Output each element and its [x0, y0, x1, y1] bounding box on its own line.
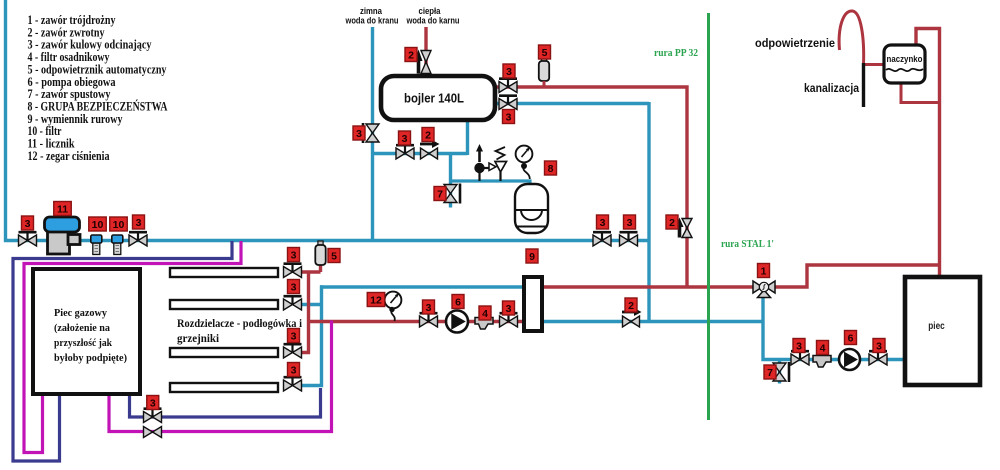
filter 4 (piec line)	[813, 356, 831, 368]
svg-text:rura STAL 1': rura STAL 1'	[721, 239, 774, 250]
wymiennik rurowy U9 (heat exchanger)	[524, 277, 542, 331]
node label: ciepla woda do karnu	[406, 6, 460, 26]
label 4	[479, 306, 491, 320]
label 11	[54, 202, 72, 216]
label 7	[764, 365, 776, 379]
label 2	[405, 48, 417, 62]
label 3	[873, 339, 885, 353]
water meter 11 (licznik)	[45, 217, 81, 254]
node label: Rozdzielacze	[177, 318, 303, 345]
label 3	[624, 215, 636, 229]
svg-text:odpowietrzenie: odpowietrzenie	[755, 38, 835, 50]
svg-text:bojler 140L: bojler 140L	[404, 91, 464, 106]
valve 3 bojler warm line	[499, 96, 517, 110]
svg-text:przyszłość jak: przyszłość jak	[54, 337, 113, 349]
pump 6 (pompa obiegowa)	[446, 311, 468, 333]
svg-text:kanalizacja: kanalizacja	[804, 83, 860, 95]
wire: heating blue supply to exchanger	[320, 285, 525, 288]
valve 3 on zimna riser	[363, 123, 379, 143]
svg-text:4: 4	[820, 342, 826, 354]
label 3	[288, 363, 300, 377]
bojler 140L tank	[381, 76, 495, 120]
wire: manifold red riser with bar1/bar3 stubs	[300, 265, 321, 354]
wire: drain stub bottom right	[778, 360, 781, 384]
svg-text:6: 6	[848, 332, 854, 344]
svg-text:3: 3	[506, 303, 512, 315]
svg-text:3: 3	[25, 218, 31, 230]
svg-text:3: 3	[600, 217, 606, 229]
naczynko vessel box	[884, 45, 925, 83]
svg-text:11: 11	[57, 203, 68, 215]
svg-text:3: 3	[356, 128, 362, 140]
manifold bar 1	[170, 268, 278, 277]
wire: rura PP 32 (green)	[707, 13, 710, 420]
svg-text:7: 7	[437, 188, 443, 200]
svg-text:12: 12	[370, 294, 382, 306]
wire: exchanger secondary return	[541, 320, 765, 323]
label 3	[399, 131, 411, 145]
label 3	[288, 329, 300, 343]
label 2	[422, 128, 434, 142]
manifold bar 2	[170, 300, 278, 309]
svg-text:grzejniki: grzejniki	[177, 333, 220, 345]
safety relief valve of GRUPA 8	[489, 147, 507, 181]
pressure gauge 12 (zegar cisnienia)	[385, 292, 402, 321]
svg-text:10: 10	[92, 219, 104, 231]
manifold bar 3	[170, 348, 278, 357]
svg-text:woda do kranu: woda do kranu	[345, 16, 399, 26]
svg-text:ciepła: ciepła	[419, 6, 442, 16]
svg-text:3: 3	[291, 330, 297, 342]
wire: naczynko left port	[863, 63, 884, 66]
label 2	[625, 298, 637, 312]
valve 3 (meter left)	[19, 232, 37, 246]
label 5	[328, 249, 340, 263]
wire: zimna woda riser	[371, 27, 374, 242]
svg-text:3: 3	[291, 249, 297, 261]
label 2	[666, 215, 678, 229]
wire: bojler warm-side blue line to right riser	[493, 102, 649, 323]
label 4	[817, 341, 829, 355]
vent 5 stem	[543, 81, 546, 87]
svg-text:Piec gazowy: Piec gazowy	[54, 307, 107, 319]
manifold bar 4	[170, 383, 278, 392]
wire: safety group header	[449, 181, 530, 187]
valve 3 before piec filter	[791, 351, 809, 365]
valve 3 (meter right)	[129, 232, 147, 246]
svg-text:zimna: zimna	[360, 6, 383, 16]
valve 3 bojler hot outlet	[499, 79, 517, 93]
label 3	[288, 280, 300, 294]
svg-text:12 - zegar ciśnienia: 12 - zegar ciśnienia	[28, 149, 111, 163]
svg-text:Rozdzielacze - podłogówka i: Rozdzielacze - podłogówka i	[177, 318, 303, 330]
label 3	[503, 301, 515, 315]
label 10	[89, 217, 107, 231]
svg-text:(założenie na: (założenie na	[54, 322, 110, 334]
wire: exchanger primary to valve1 and naczynko riser	[541, 29, 940, 288]
pressure gauge of GRUPA 8	[516, 146, 533, 179]
label 3	[423, 300, 435, 314]
svg-text:4: 4	[482, 308, 488, 320]
wire: safety group drop	[449, 152, 452, 208]
svg-text:3: 3	[876, 340, 882, 352]
label 3	[597, 215, 609, 229]
wire: valve1 down to piec pump line	[763, 290, 906, 360]
svg-text:piec: piec	[928, 321, 945, 332]
automatic vent 5 (top)	[539, 57, 549, 81]
label 3	[133, 215, 145, 229]
label 8	[545, 161, 557, 175]
wire: cold water main (left edge down and across)	[6, 0, 650, 241]
check valve 2 on return	[622, 308, 642, 327]
svg-text:8: 8	[548, 163, 554, 175]
filter 10 (right bolt)	[112, 235, 123, 255]
valve 3 manifold bar2	[284, 296, 302, 310]
wire: navy return from piec gazowy	[130, 388, 321, 417]
automatic vent 5 (manifold)	[315, 241, 325, 265]
label 3	[503, 110, 515, 124]
valve 3 before pump 6	[420, 313, 438, 327]
wire: kanalizacja line	[862, 63, 865, 107]
svg-text:2: 2	[408, 49, 414, 61]
label 3	[22, 216, 34, 230]
drain valve 7 (piec line)	[773, 362, 789, 382]
svg-text:5: 5	[331, 250, 337, 262]
piec box	[905, 277, 980, 385]
label 3	[147, 396, 159, 410]
three-way valve 1 (zawor trojdrozny)	[753, 281, 775, 298]
check valve 2 on red riser	[676, 218, 693, 238]
svg-text:3: 3	[506, 66, 512, 78]
valve 3 on cold main (left)	[593, 232, 611, 246]
filter 4 (filtr osadnikowy)	[475, 318, 493, 330]
wire: floor-heating magenta loop	[24, 241, 241, 453]
label 9	[526, 249, 538, 263]
valve 3 manifold bar1	[284, 264, 302, 278]
svg-text:1: 1	[761, 265, 767, 277]
valve 3 at piec	[869, 351, 887, 365]
valve 3 navy return	[144, 409, 162, 423]
svg-text:5: 5	[542, 47, 548, 59]
valve 3 manifold bar4	[284, 377, 302, 391]
label 1	[758, 264, 770, 278]
svg-text:2: 2	[669, 217, 675, 229]
node label: zimna woda do kranu	[345, 6, 399, 26]
svg-text:2: 2	[425, 129, 431, 141]
check valve 2 on ciepla riser	[415, 50, 432, 74]
valve 3 after filter	[500, 313, 518, 327]
svg-text:3: 3	[136, 217, 142, 229]
check valve 2 on cold feed	[420, 140, 440, 159]
svg-text:3: 3	[426, 302, 432, 314]
check valve of GRUPA 8	[474, 144, 488, 181]
label 3	[503, 64, 515, 78]
label 6	[845, 331, 857, 345]
wire: odpowietrzenie vent arc	[839, 11, 864, 65]
svg-text:6: 6	[455, 296, 461, 308]
valve 3 manifold bar3	[284, 344, 302, 358]
label 7	[434, 187, 446, 201]
label 3	[353, 126, 365, 140]
pump 6 (piec line)	[839, 349, 860, 370]
filter 10 (left bolt)	[91, 235, 102, 255]
svg-text:3: 3	[402, 133, 408, 145]
piec gazowy box	[33, 269, 140, 394]
wire: manifold blue riser	[300, 285, 322, 385]
legend text	[28, 13, 168, 163]
label 5	[539, 45, 551, 59]
svg-text:rura PP 32: rura PP 32	[654, 48, 698, 59]
svg-text:naczynko: naczynko	[887, 54, 923, 64]
wire: cold feed to bojler	[373, 118, 468, 155]
svg-text:3: 3	[291, 281, 297, 293]
wire: red main to exchanger (left)	[309, 320, 526, 323]
valve 3 on cold feed	[396, 145, 414, 159]
valve 3 on cold main (right)	[620, 232, 638, 246]
svg-text:3: 3	[506, 111, 512, 123]
svg-text:3: 3	[150, 397, 156, 409]
svg-text:3: 3	[291, 364, 297, 376]
label 12	[367, 293, 385, 307]
valve 3 magenta return	[144, 427, 162, 438]
wire: bojler hot outlet to right riser	[493, 87, 687, 288]
svg-text:byłoby podpięte): byłoby podpięte)	[54, 352, 127, 364]
label 6	[452, 295, 464, 309]
wire: navy loop (outer)	[13, 241, 232, 461]
svg-text:3: 3	[627, 217, 633, 229]
svg-text:3: 3	[796, 340, 802, 352]
wire: naczynko bottom loop	[901, 82, 940, 103]
expansion vessel (GRUPA 8)	[515, 184, 548, 233]
svg-text:10: 10	[113, 219, 125, 231]
drain valve 7 (safety group)	[444, 184, 460, 204]
svg-text:2: 2	[628, 300, 634, 312]
svg-text:7: 7	[767, 367, 773, 379]
wire: ciepla woda riser	[424, 27, 427, 78]
wire: magenta return from piec gazowy	[109, 321, 332, 432]
svg-text:woda do karnu: woda do karnu	[406, 16, 460, 26]
svg-text:9: 9	[529, 251, 535, 263]
label 3	[288, 248, 300, 262]
label 3	[793, 339, 805, 353]
label 10	[110, 217, 128, 231]
